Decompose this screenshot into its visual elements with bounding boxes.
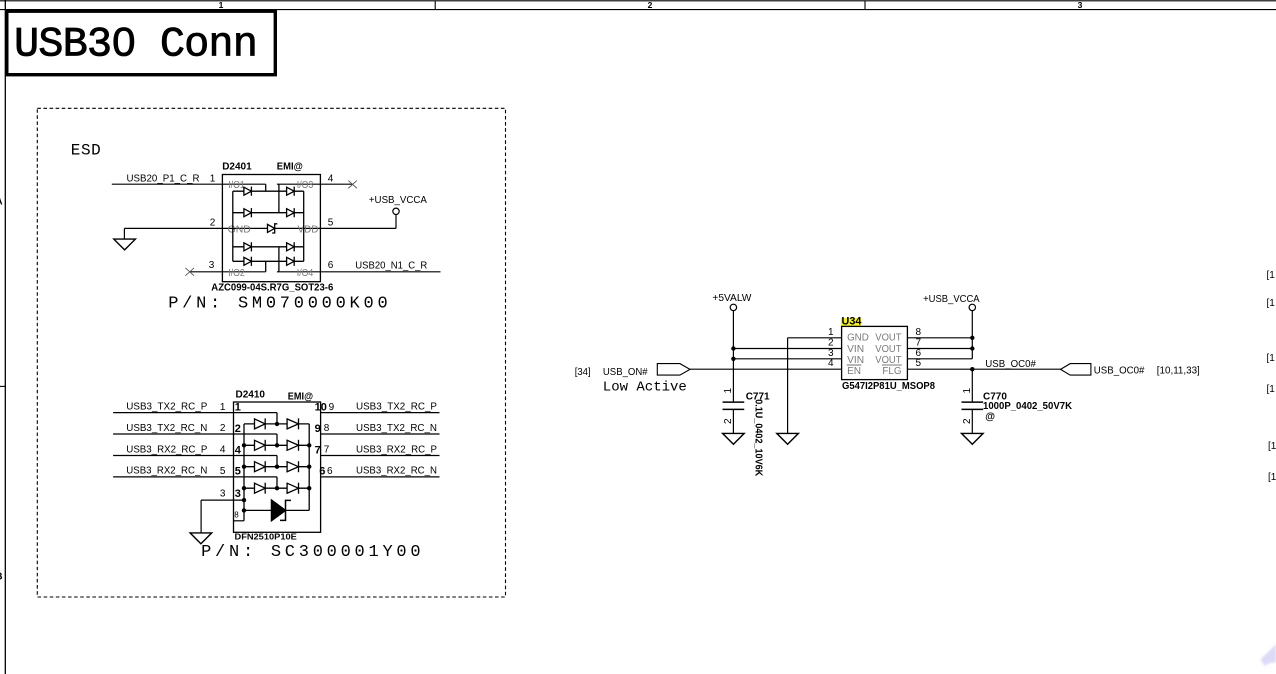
svg-text:USB3_RX2_RC_P: USB3_RX2_RC_P [356,444,437,455]
wire USB3_TX2_RC_P left (pin 1) [113,412,233,414]
wire pin4 segment [277,183,352,185]
svg-text:USB3_RX2_RC_N: USB3_RX2_RC_N [126,466,207,477]
svg-text:USB_ON#: USB_ON# [603,367,648,378]
power switch U34 body [842,326,908,379]
junction dots on right trunk [307,443,311,447]
svg-text:1: 1 [828,327,834,338]
svg-text:U34: U34 [842,315,863,327]
svg-text:USB3_TX2_RC_P: USB3_TX2_RC_P [126,401,207,412]
junction dot VOUT7 [970,346,974,350]
junction dot VIN2 [731,346,735,350]
D2401 internal GND-VDD through line [222,227,320,229]
D2410 zener row links [244,509,272,511]
D2401 jog vertical bottom (pin3) [265,261,267,272]
wire U34 EN pin4 [690,368,842,370]
diode D2401 h (row4 right) [287,257,295,265]
D2410 inner pin wire row 2 [234,433,278,435]
diode D2401 c (row2 left) [244,209,252,217]
watermark swoosh (bottom right corner) [1261,644,1276,666]
svg-text:4: 4 [828,358,834,369]
wire pin3 stub with no-connect [190,271,266,273]
svg-text:USB30 Conn: USB30 Conn [14,21,257,69]
svg-text:ESD: ESD [71,142,101,160]
svg-text:GND: GND [847,332,869,344]
wire pin3 D2410 to ground [201,499,244,501]
diode D2410 row1 left [255,419,266,429]
wire C770 to ground [971,409,973,433]
diode D2410 row2 left [255,440,266,450]
diode D2401 f (row3 right) [287,243,295,251]
svg-text:9: 9 [315,423,321,435]
D2410 pin8 stub [234,520,245,522]
wire C771 to ground [732,409,734,433]
diode D2401 d (row2 right) [287,209,295,217]
D2410 diode row 4 line [244,487,309,489]
svg-text:1: 1 [235,401,241,413]
svg-text:6: 6 [319,466,325,478]
svg-text:2: 2 [962,418,973,424]
zener diode D2410 (filled) [272,500,286,521]
svg-text:5: 5 [220,466,226,477]
D2401 left trunk [232,191,234,261]
sheet border left line [4,0,6,674]
wire U34 GND pin1 [788,337,842,339]
svg-text:[1: [1 [1267,270,1276,281]
wire USB3_TX2_RC_N right (pin 9) [321,433,440,435]
svg-text:1: 1 [723,388,734,394]
sheet connector USB_ON# (input) [657,364,690,376]
svg-text:+USB_VCCA: +USB_VCCA [923,294,980,305]
svg-text:AZC099-04S.R7G_SOT23-6: AZC099-04S.R7G_SOT23-6 [211,282,333,293]
svg-text:7: 7 [315,444,321,456]
ESD diode array D2401 body [222,175,320,282]
wire U34 VOUT pin8 [907,337,972,339]
svg-text:[1: [1 [1268,441,1276,452]
svg-text:USB3_RX2_RC_P: USB3_RX2_RC_P [126,444,207,455]
D2410 step vertical row 3 [276,456,278,467]
svg-text:8: 8 [324,423,330,434]
diode D2410 row2 right [287,440,298,450]
svg-text:4: 4 [235,444,242,456]
wire U34 FLG pin5 / USB_OC0# [907,368,1060,370]
svg-text:Low Active: Low Active [603,379,687,395]
svg-text:USB_OC0#: USB_OC0# [1094,365,1145,376]
sheet border top inner line [0,9,1276,11]
D2410 inner pin wire row 4 [234,476,278,478]
junction dot mid row 3 [275,465,279,469]
svg-text:P/N: SC300001Y00: P/N: SC300001Y00 [201,543,424,562]
wire U34 VIN pin3 [733,358,841,360]
power symbol +USB_VCCA (U34) [969,304,975,310]
svg-text:FLG: FLG [882,365,901,377]
svg-text:USB3_TX2_RC_N: USB3_TX2_RC_N [356,423,437,434]
sheet connector USB_OC0# (output) [1061,364,1091,376]
svg-text:VOUT: VOUT [875,343,902,355]
D2410 step vertical row 1 [276,413,278,424]
D2401 right trunk upper [278,184,280,213]
diode D2410 row1 right [287,419,298,429]
wire USB3_RX2_RC_N right (pin 6) [321,476,440,478]
svg-text:@: @ [985,412,995,423]
svg-text:4: 4 [328,174,334,185]
wire U34 VOUT pin6 [907,358,972,360]
junction dot FLG/C770 [970,367,974,371]
svg-text:[1: [1 [1268,472,1276,483]
svg-text:3: 3 [209,260,215,271]
diode D2410 row3 right [287,462,298,472]
ESD diode array D2410 body [234,402,321,532]
diode D2410 row3 left [255,462,266,472]
diode D2401 b (row1 right) [287,187,295,195]
svg-text:VDD: VDD [298,224,319,235]
svg-text:9: 9 [329,402,335,413]
svg-text:0.1U_0402_10V6K: 0.1U_0402_10V6K [753,399,764,477]
sheet border top outer line [0,0,1276,2]
svg-text:+5VALW: +5VALW [712,293,752,304]
svg-text:I/O4: I/O4 [297,268,314,279]
svg-text:2: 2 [220,423,226,434]
svg-text:4: 4 [220,445,226,456]
D2410 diode row 2 line [244,444,309,446]
svg-text:6: 6 [327,466,333,477]
wire U34 VIN pin2 [733,348,841,350]
wire USB3_RX2_RC_N left (pin 5) [113,476,233,478]
svg-text:1: 1 [210,174,216,185]
diode D2401 e (row3 left) [244,243,252,251]
D2410 step vertical row 4 [276,477,278,488]
D2401 row2 line [233,212,304,214]
svg-text:USB20_P1_C_R: USB20_P1_C_R [127,174,200,185]
D2401 right vertical [303,191,305,261]
svg-text:1: 1 [219,0,224,10]
title zero dot cover [121,38,128,46]
D2410 inner pin wire row 1 [234,412,278,414]
wire GND pin2 [124,227,222,229]
D2410 step vertical row 2 [276,434,278,445]
D2410 right trunk [308,424,310,511]
wire VOUT rail [971,311,973,359]
svg-text:5: 5 [328,218,334,229]
junction dot VOUT8 [970,336,974,340]
svg-text:3: 3 [235,488,241,500]
D2410 inner pin wire row 3 [234,455,278,457]
zone tick 1-2 [434,1,436,10]
svg-text:6: 6 [916,348,922,359]
D2401 right trunk lower [278,247,280,272]
svg-text:EMI@: EMI@ [277,161,303,172]
svg-text:VIN: VIN [847,343,864,355]
junction dot mid row 1 [275,422,279,426]
capacitor C771 [723,401,745,403]
junction dot mid row 2 [275,443,279,447]
ESD dashed group box [37,108,505,597]
svg-text:3: 3 [1078,0,1083,10]
zone row tick [0,385,5,387]
svg-text:1000P_0402_50V7K: 1000P_0402_50V7K [983,401,1073,412]
svg-text:3: 3 [828,348,834,359]
power switch U34 highlight [841,318,862,326]
D2410 left trunk [243,424,245,521]
svg-text:I/O1: I/O1 [228,180,245,191]
D2401 row1 line [233,190,304,192]
svg-text:1: 1 [962,388,973,394]
wire VDD pin5 to +USB_VCCA [320,227,396,229]
svg-text:5: 5 [235,466,241,478]
D2410 diode row 1 line [244,423,309,425]
svg-text:A: A [0,196,3,207]
diode D2410 row4 right [287,483,298,493]
svg-text:6: 6 [328,260,334,271]
junction dots on left trunk [242,443,246,447]
svg-text:I/O3: I/O3 [297,180,314,191]
svg-text:USB3_TX2_RC_N: USB3_TX2_RC_N [126,423,207,434]
svg-text:VOUT: VOUT [875,332,902,344]
svg-text:EN: EN [847,365,861,377]
svg-text:8: 8 [916,327,922,338]
svg-text:USB3_TX2_RC_P: USB3_TX2_RC_P [356,401,437,412]
svg-text:EMI@: EMI@ [288,391,313,402]
no-connect X on pin 3 [185,268,194,276]
svg-text:7: 7 [324,445,330,456]
ground symbol (D2401 pin2) [114,239,136,250]
svg-text:USB20_N1_C_R: USB20_N1_C_R [355,261,427,272]
svg-text:1: 1 [220,402,226,413]
wire USB3_TX2_RC_P right (pin 10) [321,412,440,414]
svg-text:[34]: [34] [575,367,591,378]
wire +USB_VCCA drop [395,215,397,229]
svg-text:2: 2 [235,423,241,435]
ground symbol (C771) [723,433,745,444]
svg-text:3: 3 [220,488,226,499]
power symbol +5VALW [730,304,736,310]
diode D2401 a (row1 left) [244,187,252,195]
svg-text:5: 5 [916,358,922,369]
svg-text:D2401: D2401 [222,161,252,172]
svg-text:[1: [1 [1267,298,1276,309]
zener diode D2401 center [268,224,275,232]
svg-text:USB3_RX2_RC_N: USB3_RX2_RC_N [356,466,437,477]
D2410 diode row 3 line [244,466,309,468]
ground symbol (D2410 pin3) [190,533,212,544]
svg-text:I/O2: I/O2 [228,268,245,279]
D2401 row4 line [233,260,304,262]
power symbol +USB_VCCA (D2401) [393,208,399,214]
svg-text:USB_OC0#: USB_OC0# [985,359,1036,370]
wire USB20_P1_C_R (pin1) [112,183,266,185]
svg-text:D2410: D2410 [236,389,266,400]
svg-text:B: B [0,572,3,583]
D2401 row3 line [233,246,304,248]
svg-text:8: 8 [234,510,239,519]
svg-text:GND: GND [228,224,251,235]
svg-text:[1: [1 [1267,384,1276,395]
svg-text:2: 2 [210,218,216,229]
svg-text:2: 2 [648,0,653,10]
diode D2401 g (row4 left) [244,257,252,265]
wire GND drop [123,228,125,239]
diode D2410 row4 left [255,483,266,493]
svg-text:10: 10 [315,401,327,413]
wire U34 VOUT pin7 [907,348,972,350]
ground symbol (U34 GND) [777,433,799,444]
wire C770 lead top [971,369,973,402]
wire USB3_TX2_RC_N left (pin 2) [113,433,233,435]
no-connect X on pin 4 [348,181,357,189]
wire USB20_N1_C_R pin6 [277,271,441,273]
zone tick 2-3 [864,1,866,10]
svg-text:G547I2P81U_MSOP8: G547I2P81U_MSOP8 [842,380,935,392]
title block box [7,11,276,74]
svg-text:[1: [1 [1267,353,1276,364]
svg-text:DFN2510P10E: DFN2510P10E [235,531,298,541]
wire +5VALW rail [732,311,734,403]
svg-text:2: 2 [723,418,734,424]
svg-text:[10,11,33]: [10,11,33] [1157,365,1200,376]
wire USB3_RX2_RC_P left (pin 4) [113,455,233,457]
D2401 jog vertical top (pin1) [265,184,267,191]
junction dot mid row 4 [275,486,279,490]
wire USB3_RX2_RC_P right (pin 7) [321,455,440,457]
capacitor C770 [961,401,983,403]
ground symbol (C770) [962,433,984,444]
svg-text:P/N: SM070000K00: P/N: SM070000K00 [168,295,391,314]
svg-text:+USB_VCCA: +USB_VCCA [369,195,427,206]
junction dot VIN3 [731,357,735,361]
